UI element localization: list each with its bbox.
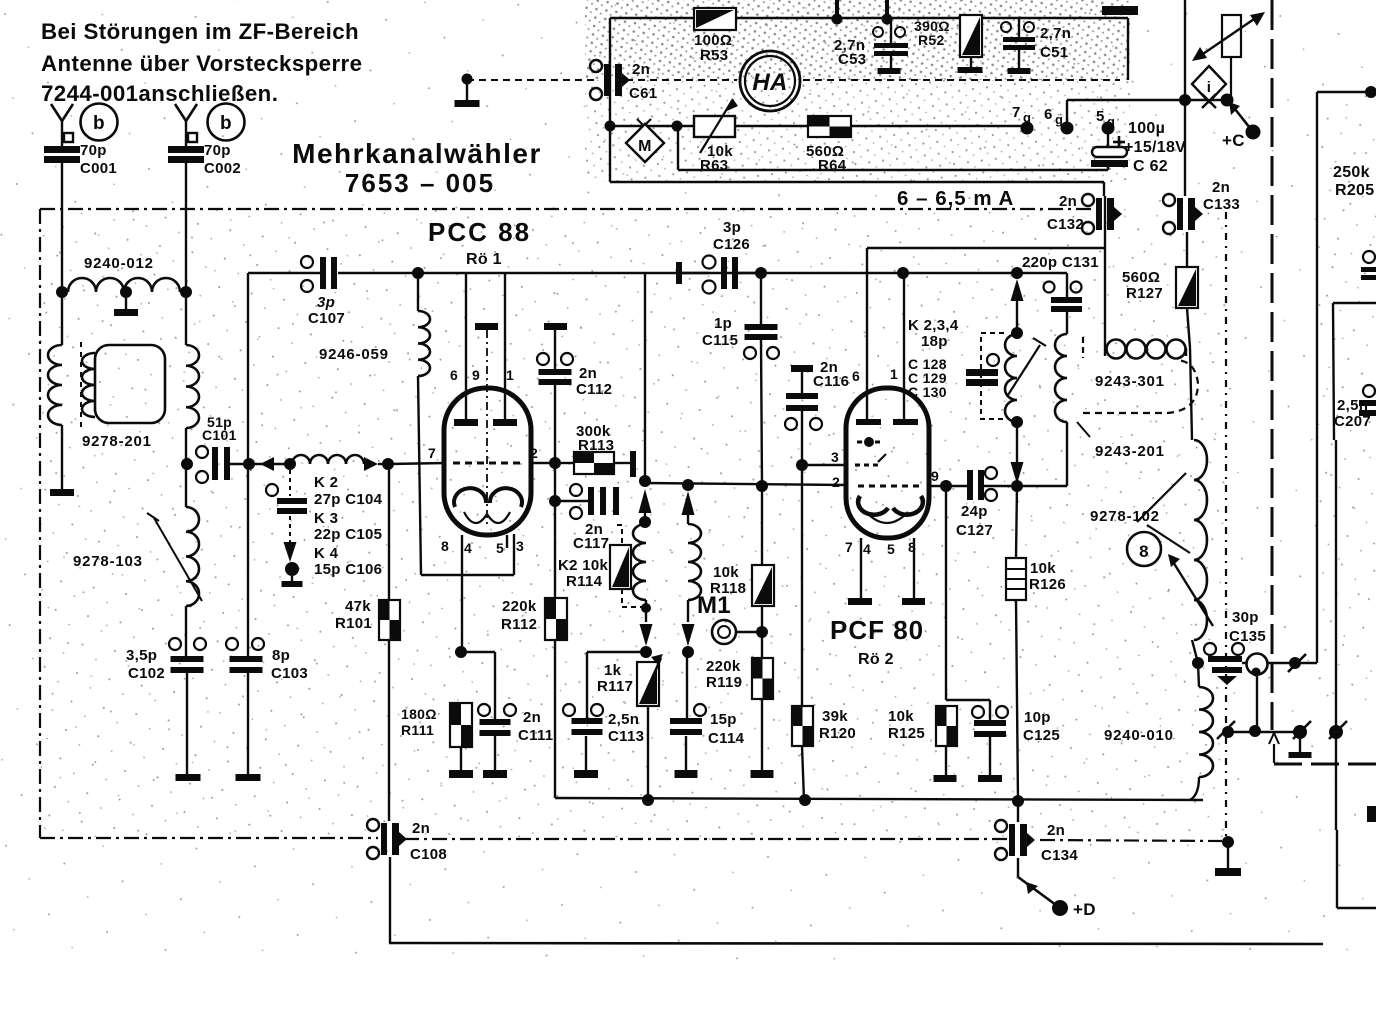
svg-text:2n: 2n	[1212, 179, 1230, 196]
svg-text:7653 – 005: 7653 – 005	[345, 168, 495, 198]
svg-text:2n: 2n	[412, 820, 430, 837]
svg-text:C53: C53	[838, 51, 866, 68]
svg-text:R126: R126	[1029, 576, 1066, 593]
svg-text:220k: 220k	[706, 658, 741, 675]
svg-text:R125: R125	[888, 725, 925, 742]
svg-text:R120: R120	[819, 725, 856, 742]
svg-text:K2 10k: K2 10k	[558, 557, 609, 574]
svg-text:C134: C134	[1041, 847, 1078, 864]
svg-text:27p C104: 27p C104	[314, 491, 383, 508]
svg-text:6 – 6,5 m A: 6 – 6,5 m A	[897, 187, 1014, 210]
svg-text:K 2: K 2	[314, 474, 338, 491]
svg-text:10k: 10k	[713, 564, 739, 581]
svg-text:220k: 220k	[502, 598, 537, 615]
svg-text:5: 5	[887, 541, 895, 557]
svg-text:100µ: 100µ	[1128, 120, 1165, 137]
svg-text:C001: C001	[80, 160, 117, 177]
svg-text:C111: C111	[518, 727, 553, 744]
svg-text:47k: 47k	[345, 598, 371, 615]
svg-text:1: 1	[506, 367, 514, 383]
svg-text:M1: M1	[697, 592, 731, 619]
svg-text:2,5n: 2,5n	[1337, 397, 1368, 414]
svg-text:70p: 70p	[204, 142, 231, 159]
svg-text:10p: 10p	[1024, 709, 1051, 726]
svg-text:R52: R52	[918, 32, 945, 48]
svg-text:3,5p: 3,5p	[126, 647, 157, 664]
svg-text:C101: C101	[202, 427, 237, 443]
svg-text:3p: 3p	[317, 294, 335, 311]
svg-text:PCC 88: PCC 88	[428, 217, 531, 247]
svg-text:3: 3	[516, 538, 524, 554]
svg-text:6: 6	[1044, 106, 1053, 123]
svg-text:1: 1	[890, 366, 898, 382]
svg-text:b: b	[93, 113, 105, 134]
svg-text:3: 3	[831, 449, 839, 465]
svg-text:K 3: K 3	[314, 510, 338, 527]
svg-text:R64: R64	[818, 157, 847, 174]
svg-text:i: i	[1207, 79, 1211, 96]
svg-text:22p C105: 22p C105	[314, 526, 382, 543]
svg-text:8: 8	[441, 538, 449, 554]
svg-text:R127: R127	[1126, 285, 1163, 302]
svg-text:10k: 10k	[888, 708, 914, 725]
svg-text:2n: 2n	[632, 61, 650, 78]
svg-text:2n: 2n	[1059, 193, 1077, 210]
svg-text:g: g	[1107, 114, 1115, 129]
svg-text:R101: R101	[335, 615, 372, 632]
svg-text:K 2,3,4: K 2,3,4	[908, 317, 959, 334]
svg-text:C 62: C 62	[1133, 158, 1168, 175]
svg-text:2n: 2n	[523, 709, 541, 726]
svg-text:250k: 250k	[1333, 164, 1370, 181]
svg-text:2: 2	[832, 474, 840, 490]
svg-text:C61: C61	[629, 85, 657, 102]
svg-text:70p: 70p	[80, 142, 107, 159]
svg-text:5: 5	[1096, 108, 1105, 125]
svg-text:R117: R117	[597, 678, 633, 695]
svg-text:+C: +C	[1222, 131, 1245, 150]
svg-text:C51: C51	[1040, 44, 1068, 61]
svg-text:2: 2	[530, 445, 538, 461]
svg-text:C112: C112	[576, 381, 612, 398]
svg-text:10k: 10k	[1030, 560, 1056, 577]
svg-text:Mehrkanalwähler: Mehrkanalwähler	[292, 138, 542, 169]
svg-text:C115: C115	[702, 332, 738, 349]
svg-text:9240-012: 9240-012	[84, 255, 154, 272]
svg-text:C117: C117	[573, 535, 609, 552]
svg-text:R114: R114	[566, 573, 603, 590]
svg-text:9240-010: 9240-010	[1104, 727, 1174, 744]
svg-text:560Ω: 560Ω	[1122, 269, 1160, 286]
svg-text:4: 4	[863, 541, 871, 557]
svg-text:C207: C207	[1334, 413, 1371, 430]
svg-text:C 130: C 130	[908, 384, 947, 400]
svg-text:7244-001anschließen.: 7244-001anschließen.	[41, 81, 278, 106]
svg-text:g: g	[1023, 110, 1031, 125]
svg-text:C135: C135	[1229, 628, 1266, 645]
svg-text:2n: 2n	[579, 365, 597, 382]
svg-text:9: 9	[931, 468, 939, 484]
svg-text:C126: C126	[713, 236, 750, 253]
svg-text:6: 6	[852, 368, 860, 384]
svg-text:4: 4	[464, 540, 472, 556]
svg-text:K 4: K 4	[314, 545, 339, 562]
svg-text:C103: C103	[271, 665, 308, 682]
svg-text:R111: R111	[401, 722, 434, 738]
svg-text:b: b	[220, 113, 232, 134]
svg-text:18p: 18p	[921, 333, 948, 350]
svg-text:8: 8	[1139, 542, 1149, 561]
svg-text:C107: C107	[308, 310, 345, 327]
svg-text:R205: R205	[1335, 182, 1374, 199]
svg-text:+15/18V: +15/18V	[1124, 139, 1186, 156]
svg-text:C108: C108	[410, 846, 447, 863]
svg-text:15p C106: 15p C106	[314, 561, 382, 578]
svg-text:7: 7	[845, 539, 853, 555]
svg-text:2,5n: 2,5n	[608, 711, 639, 728]
svg-text:1p: 1p	[714, 315, 732, 332]
svg-text:g: g	[1055, 112, 1063, 127]
svg-text:Bei Störungen im ZF-Bereich: Bei Störungen im ZF-Bereich	[41, 19, 359, 44]
svg-text:9243-301: 9243-301	[1095, 373, 1165, 390]
svg-text:C002: C002	[204, 160, 241, 177]
svg-text:9278-103: 9278-103	[73, 553, 143, 570]
svg-text:5: 5	[496, 540, 504, 556]
svg-text:+D: +D	[1073, 900, 1096, 919]
svg-text:9246-059: 9246-059	[319, 346, 389, 363]
svg-text:C133: C133	[1203, 196, 1240, 213]
svg-text:R53: R53	[700, 47, 728, 64]
svg-text:Rö 2: Rö 2	[858, 651, 894, 668]
svg-text:9243-201: 9243-201	[1095, 443, 1165, 460]
svg-text:R63: R63	[700, 157, 728, 174]
svg-text:C132: C132	[1047, 216, 1084, 233]
svg-text:2,7n: 2,7n	[1040, 25, 1071, 42]
svg-text:180Ω: 180Ω	[401, 706, 437, 722]
svg-text:220p C131: 220p C131	[1022, 254, 1099, 271]
svg-text:1k: 1k	[604, 662, 622, 679]
svg-text:Antenne über Vorstecksperre: Antenne über Vorstecksperre	[41, 51, 362, 76]
svg-text:C116: C116	[813, 373, 849, 390]
svg-text:39k: 39k	[822, 708, 848, 725]
svg-text:9278-201: 9278-201	[82, 433, 152, 450]
svg-text:R119: R119	[706, 674, 742, 691]
svg-text:30p: 30p	[1232, 609, 1259, 626]
svg-text:R112: R112	[501, 616, 537, 633]
svg-text:8p: 8p	[272, 647, 290, 664]
svg-text:M: M	[638, 138, 652, 155]
svg-text:PCF 80: PCF 80	[830, 615, 924, 645]
svg-text:3p: 3p	[723, 219, 741, 236]
svg-text:15p: 15p	[710, 711, 737, 728]
svg-text:Rö 1: Rö 1	[466, 251, 502, 268]
svg-text:C113: C113	[608, 728, 644, 745]
svg-text:HA: HA	[752, 69, 787, 96]
svg-text:6: 6	[450, 367, 458, 383]
svg-text:7: 7	[1012, 104, 1021, 121]
svg-text:C114: C114	[708, 730, 745, 747]
svg-text:C125: C125	[1023, 727, 1060, 744]
svg-text:9: 9	[472, 367, 480, 383]
svg-text:C127: C127	[956, 522, 993, 539]
svg-text:24p: 24p	[961, 503, 988, 520]
svg-text:2n: 2n	[1047, 822, 1065, 839]
svg-text:7: 7	[428, 445, 436, 461]
svg-text:C102: C102	[128, 665, 165, 682]
